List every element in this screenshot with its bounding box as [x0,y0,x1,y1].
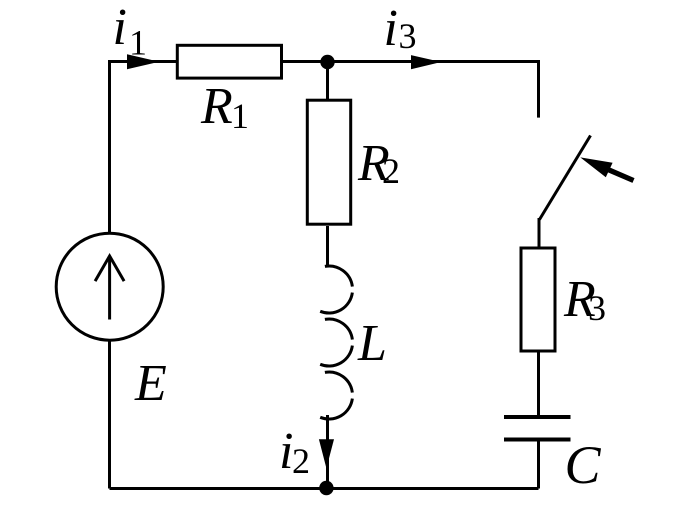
svg-text:2: 2 [292,441,310,481]
resistor R2 [307,100,350,224]
wire capacitor to bottom [537,440,540,489]
wire switch blade bottom to R3 [538,218,541,248]
svg-text:L: L [357,315,387,372]
wire middle branch (node A to R2) [326,62,329,101]
source E arrow [95,256,124,320]
svg-text:1: 1 [231,96,249,136]
current arrow i3 [411,55,441,69]
current arrow i2 [319,439,334,468]
wire left vertical (top corner to source top) [108,60,111,235]
wire top right corner drop (to switch fixed contact) [537,60,540,118]
wire top segment (R1 to node A) [283,60,328,63]
wire top right segment (node A to corner) [328,60,539,63]
svg-text:C: C [565,435,602,495]
wire bottom horizontal [110,487,539,490]
node A (top junction) [320,55,334,69]
wire R2 to coil L [326,226,329,266]
capacitor C [504,417,571,440]
wire left vertical (source bottom to bottom corner) [108,339,111,489]
svg-text:R: R [200,78,233,135]
svg-text:3: 3 [588,288,606,328]
svg-text:i: i [113,0,127,56]
wire coil L to bottom node [326,415,329,489]
wire top left segment (corner to R1) [108,60,176,63]
resistor R3 [521,248,555,351]
wire R3 to capacitor [537,352,540,417]
inductor L coil (3 arcs) [320,266,352,419]
node B (bottom junction) [319,481,333,495]
switch blade [540,136,591,220]
switch actuation arrow [608,169,634,180]
svg-text:3: 3 [399,16,417,56]
svg-text:1: 1 [129,23,147,63]
source E circle [56,233,163,340]
svg-text:i: i [384,0,398,57]
current arrow i1 [127,54,159,69]
resistor R1 [177,45,281,78]
svg-text:2: 2 [382,151,400,191]
svg-text:E: E [134,355,167,412]
